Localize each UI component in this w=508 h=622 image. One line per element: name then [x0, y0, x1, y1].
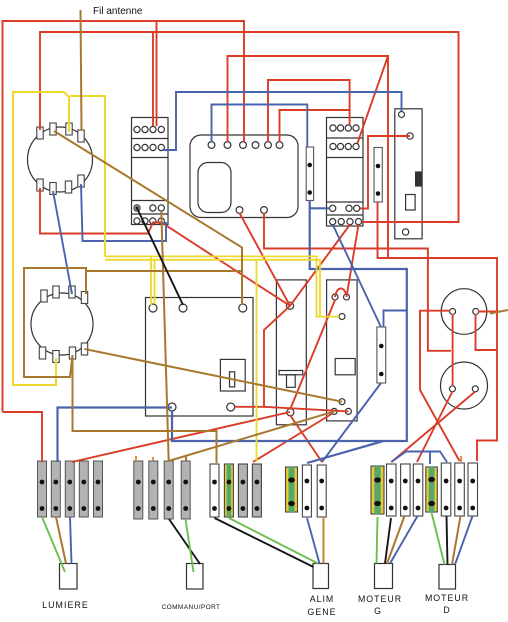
wire red U3 pin5 to U5 pin — [235, 306, 349, 412]
connector plug P4 MOTEUR G — [375, 564, 393, 589]
wire yellow drop to G3 — [256, 260, 258, 462]
switch module U4 (tall box with T lever) — [276, 280, 306, 425]
wire red U5 pin to U4 pin diagonal — [290, 300, 335, 409]
wire black G5 to P4 — [385, 518, 391, 564]
wire orange stub G6 — [460, 456, 462, 462]
svg-text:ALIM: ALIM — [310, 594, 335, 604]
svg-text:LUMIERE: LUMIERE — [42, 600, 89, 610]
wire black dot at K1 pin — [135, 206, 139, 210]
wire blue K2 pin to X3 — [333, 225, 381, 328]
control unit U1 (large rounded box top-center) — [190, 135, 298, 218]
wire brown S1 to U3 diagonal — [54, 131, 242, 305]
wire red M2 left pin to G5 — [417, 392, 452, 463]
wire yellow drops to U3 — [151, 256, 155, 305]
wire red U1 pin6 to junction — [280, 110, 350, 142]
wire yellow bus strand 2 — [105, 260, 320, 316]
wire red PSU pin to K2 pin — [360, 136, 410, 209]
wire red K2 pin to junction J — [290, 225, 350, 306]
wire green G1 to P1 — [42, 517, 65, 572]
motor socket M1 (upper right circle) — [441, 289, 487, 335]
interconnect strip X2 — [374, 148, 382, 203]
svg-text:G: G — [374, 606, 382, 616]
svg-text:COMMANU/PORT: COMMANU/PORT — [162, 604, 221, 611]
connector plug P5 MOTEUR D — [439, 565, 456, 590]
wire red U1 pin2 loop to K2 and down — [228, 56, 389, 258]
wire orange stubs G2 — [136, 456, 153, 461]
wire blue G5 to P4 — [390, 516, 418, 564]
wire blue stub G6 green — [429, 452, 431, 464]
wire red socket S1 to relay K2 via top — [40, 32, 459, 222]
wire blue X1 to K2 and ring bus — [58, 200, 407, 463]
svg-text:Fil antenne: Fil antenne — [93, 6, 143, 17]
wire brown S2 to U5 diagonal — [85, 349, 343, 402]
wire blue G6 to P5 — [455, 516, 473, 565]
wire blue jumper G5 to G6 — [391, 452, 447, 463]
svg-text:D: D — [443, 605, 450, 615]
wire red M2 right pin to G5 — [392, 392, 476, 463]
wire brown stub G2 — [185, 455, 187, 461]
connector plug P3 ALIM GENE — [313, 564, 329, 589]
interconnect strip X1 — [306, 147, 313, 201]
wire red G1 strip3 to U4 pin — [72, 412, 290, 462]
wire red U1 pin A to junction J — [240, 213, 291, 306]
wire blue X3 top branch to bus — [384, 311, 407, 328]
wire green G5 to P4 — [377, 517, 378, 564]
terminal block group G2 COMMANDE — [134, 461, 190, 519]
wire orange G4 to P3 — [323, 518, 325, 564]
connector plug P2 COMMANDE PORT — [187, 564, 204, 590]
wire red M1 pin to M2 pin — [452, 314, 454, 386]
interconnect strip X3 — [377, 327, 386, 383]
wire brown G6 to P5 — [452, 516, 461, 565]
wire brown G5 to P4 — [387, 516, 405, 564]
wire green G6 to P5 — [432, 513, 445, 565]
wire red left border — [3, 21, 245, 412]
wire blue G1 to P1 — [70, 517, 72, 564]
relay module K1 (DIN relay top-left) — [132, 118, 169, 225]
wire red K1 zigzag to junction J — [40, 188, 290, 306]
wire blue S1 to S2 — [53, 191, 72, 294]
wire red M1 left pin branch to G6 — [420, 311, 460, 461]
wire blue X3 to G4 — [322, 383, 381, 462]
wire brown S2 to G3 — [73, 358, 217, 463]
wire yellow bus strand 1 to U5 — [105, 256, 339, 316]
relay socket S1 (octal socket top-left) — [28, 123, 93, 195]
wire black G2 to P2 — [169, 519, 200, 564]
wire blue S1 to K1 — [81, 184, 166, 241]
motor controller U3 (large box center) — [146, 298, 254, 417]
wire red M1 right pin to right bus — [476, 312, 498, 351]
wire red G3 strip4 to U5 pin — [253, 414, 332, 462]
terminal block group G6 MOTEUR D — [426, 463, 478, 516]
terminal block group G4 ALIM right — [286, 465, 327, 517]
wire red U1 pin5 to K2 top — [268, 80, 350, 142]
wire blue G4 to P3 — [307, 518, 320, 564]
wire brown S2 loop — [24, 268, 242, 377]
wire black G3 to P3 — [215, 518, 314, 567]
wire brown G2 to U5 diagonal — [169, 411, 335, 461]
wire red to G1 strip1 — [3, 412, 43, 462]
wire brown G1 to P1 — [56, 517, 66, 564]
wire blue K1 to PSU — [162, 92, 402, 150]
wire brown K1 to G2 — [161, 211, 168, 461]
terminal block group G1 LUMIERE — [38, 461, 103, 517]
svg-text:MOTEUR: MOTEUR — [358, 594, 402, 604]
wire red U1 bottom pin B to M1 — [264, 213, 451, 351]
svg-text:GENE: GENE — [308, 607, 337, 617]
wire red drops to K1 pin3 — [153, 21, 157, 126]
wire blue U1 pin1 to X1 — [212, 105, 308, 148]
wire green G3 to P3 — [229, 518, 318, 564]
wire red U5 hook — [335, 225, 359, 298]
wire black K1 to U3 — [137, 208, 183, 305]
terminal block group G3 ALIM left — [210, 464, 261, 517]
wire black G6 to P5 — [447, 516, 448, 565]
switch module U5 (tall box with square) — [327, 280, 358, 421]
svg-text:MOTEUR: MOTEUR — [425, 593, 469, 603]
connector plug P1 LUMIERE — [60, 564, 78, 590]
relay socket S2 (octal socket mid-left) — [31, 286, 93, 363]
terminal block group G5 MOTEUR G — [371, 464, 423, 516]
motor socket M2 (lower right circle) — [441, 362, 488, 409]
wire green G2 to P2 — [186, 519, 194, 572]
wire brown edge stub — [490, 310, 508, 314]
wire yellow S1 to S2 loop — [13, 92, 69, 385]
wire yellow right loop down — [70, 96, 105, 256]
wire brown antenna — [81, 10, 82, 130]
wire red U4 pin to G4 strip — [290, 415, 322, 462]
relay module K2 (DIN relay top-center-right) — [327, 118, 364, 227]
power supply module U2 (tall box top-right) — [395, 109, 422, 239]
wire red X2 strip to G6 strip — [378, 202, 498, 461]
